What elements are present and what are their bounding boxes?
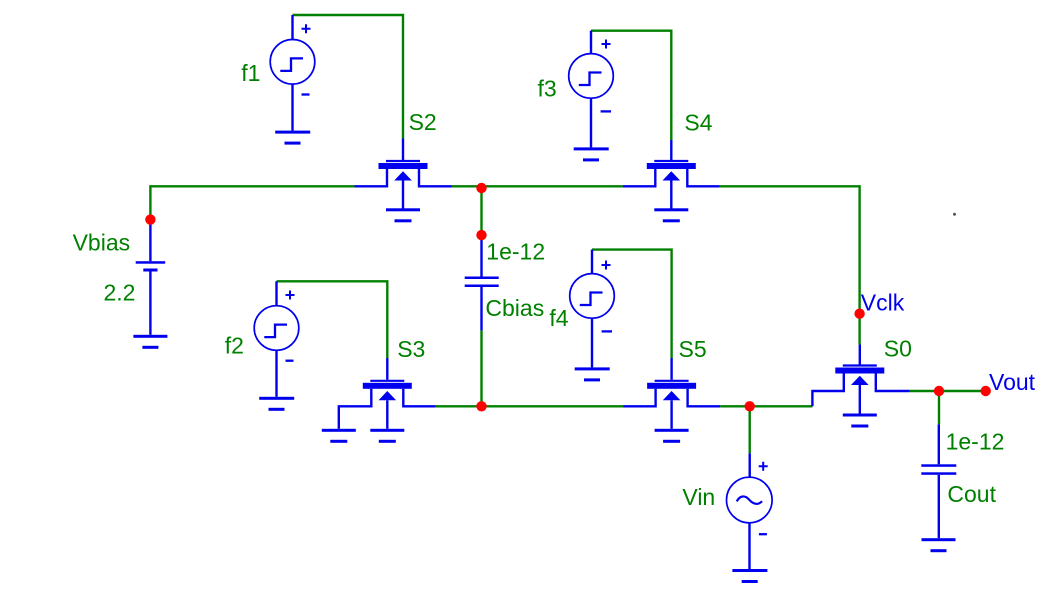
ground S3 source (322, 429, 356, 443)
wire f1 top net (293, 15, 404, 139)
svg-text:S0: S0 (884, 336, 912, 362)
svg-text:Vclk: Vclk (861, 290, 905, 316)
ground S4 bulk (654, 208, 688, 222)
pulse source f2 (254, 281, 299, 397)
ground f4 (575, 367, 610, 381)
pulse source f3 (569, 31, 614, 148)
ground Cout (922, 538, 956, 552)
transistor S3 (339, 358, 436, 429)
svg-text:S4: S4 (684, 110, 712, 136)
transistor S5 (623, 358, 720, 429)
node dot Cbias mid rail (476, 401, 486, 411)
svg-text:S2: S2 (409, 109, 437, 135)
ground Vin (732, 569, 767, 583)
svg-text:f4: f4 (549, 305, 568, 331)
svg-text:1e-12: 1e-12 (946, 429, 1005, 455)
battery Vbias (149, 222, 151, 335)
ground S2 bulk (386, 208, 420, 222)
svg-text:2.2: 2.2 (104, 280, 136, 306)
wire out rail S0 to Vout (910, 390, 986, 392)
svg-text:Vin: Vin (682, 484, 715, 510)
node dot Vbias (145, 214, 155, 224)
svg-text:S3: S3 (397, 336, 425, 362)
svg-text:1e-12: 1e-12 (486, 238, 545, 264)
svg-text:f3: f3 (538, 76, 557, 102)
ground f2 (259, 397, 294, 411)
svg-text:S5: S5 (679, 336, 707, 362)
wire top rail left (Vbias to S2) (150, 186, 354, 219)
node dot Vclk (854, 309, 864, 319)
svg-text:Cbias: Cbias (485, 295, 544, 321)
node dot Cout junction (934, 386, 944, 396)
wire top rail S4 to Vclk to S0 gate (720, 186, 860, 344)
svg-text:f2: f2 (225, 333, 244, 359)
wire mid rail S3 to S5 (436, 405, 623, 407)
transistor S4 (623, 140, 720, 209)
wire f3 top net (591, 31, 671, 140)
node dot Cbias top rail (476, 183, 486, 193)
node dot Vout terminal (981, 386, 991, 396)
ground f3 (574, 147, 609, 161)
wire Cbias bottom link (480, 330, 482, 406)
node dot Vin junction (745, 401, 755, 411)
wire f2 net (277, 281, 388, 358)
wire Cout drop (938, 391, 940, 424)
ground f1 (275, 131, 310, 145)
transistor S2 (355, 139, 452, 210)
pulse source f4 (570, 250, 615, 368)
capacitor Cout (938, 424, 940, 538)
transistor S0 (812, 345, 909, 414)
wire f4 net (592, 250, 672, 358)
wire top rail S2 to S4 (452, 185, 623, 187)
capacitor Cbias (480, 237, 482, 330)
wire Cbias top link (480, 188, 482, 235)
svg-text:f1: f1 (241, 60, 260, 86)
node dot Cbias lead (476, 230, 486, 240)
stray cursor mark (953, 213, 956, 216)
ground S5 bulk (655, 429, 689, 443)
pulse source f1 (270, 15, 315, 131)
wire Vin drop (749, 406, 751, 453)
ground S3 bulk (370, 429, 404, 443)
ground S0 bulk (843, 414, 877, 428)
svg-text:Vbias: Vbias (73, 230, 131, 256)
svg-text:Vout: Vout (989, 369, 1036, 395)
wire mid rail S5 to S0 (720, 405, 812, 407)
sine source Vin (727, 453, 773, 569)
svg-text:Cout: Cout (947, 481, 996, 507)
ground Vbias (133, 335, 167, 349)
